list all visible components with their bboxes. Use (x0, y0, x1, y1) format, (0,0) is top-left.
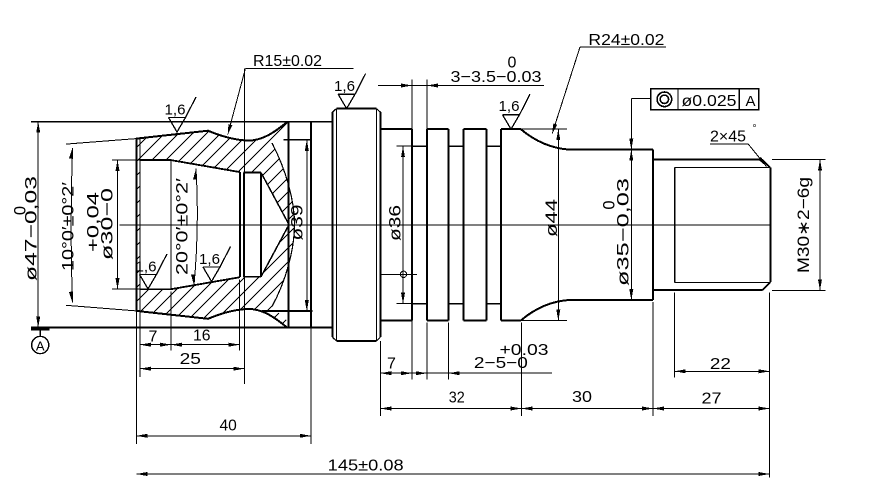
svg-text:145±0.08: 145±0.08 (328, 458, 404, 475)
svg-text:32: 32 (449, 390, 465, 407)
dim 7 mid text (387, 355, 396, 372)
label 2x45 leader (710, 144, 768, 168)
dim phi47 arrows (36, 122, 40, 328)
label R24 underline (580, 46, 666, 48)
dim 16 arrows (171, 343, 240, 347)
dim 7 mid arrows (380, 371, 412, 375)
dim 30 arrows (521, 407, 653, 411)
dim 2-5 deviation text (500, 342, 549, 359)
drill cone upper line (261, 173, 289, 225)
thread right face (769, 168, 771, 283)
bore recess end vertical (260, 173, 262, 277)
dim 145 arrows (136, 472, 769, 476)
svg-text:ø44: ø44 (543, 199, 561, 237)
svg-text:M30∗2−6g: M30∗2−6g (795, 177, 813, 273)
dim phi30 line (117, 160, 119, 289)
dim 20deg arrows (191, 168, 198, 285)
thread major top (653, 159, 762, 161)
bore step vertical 1 (239, 172, 241, 277)
dim phi30 arrows (116, 160, 120, 289)
dim 40 line (136, 435, 310, 437)
dim 3-3.5 text (451, 69, 542, 86)
dim 3-3.5 ext lines (412, 80, 427, 129)
dim phi44 ext bottom (521, 320, 567, 322)
dim phi36 ext top (397, 145, 412, 147)
thread end vertical (674, 167, 676, 282)
finish 1.6 in bore cone (199, 247, 231, 282)
finish 1.6 on phi47 (165, 97, 197, 132)
dim M30 line (819, 160, 821, 291)
dim 30 text (572, 389, 592, 406)
dim 10deg arrows (69, 148, 74, 303)
dim phi44 text (543, 199, 561, 237)
ext flange right down (379, 341, 381, 416)
svg-text:10°0′±0°2′: 10°0′±0°2′ (59, 182, 77, 271)
flange left face (332, 112, 334, 337)
svg-text:1,6: 1,6 (165, 102, 186, 119)
phi47 cylinder bottom / datum extension line (31, 327, 333, 329)
svg-text:ø30−0: ø30−0 (99, 188, 117, 260)
land and rib top edges (381, 128, 521, 130)
flange right chamfer line (376, 109, 378, 341)
ext hump left down (520, 323, 522, 416)
thread minor top line (675, 166, 771, 168)
dim phi30 ext bottom (112, 288, 140, 290)
node marker circle (400, 271, 406, 277)
svg-text:40: 40 (220, 418, 237, 435)
svg-text:ø36: ø36 (387, 205, 405, 241)
hatch section left part (0, 102, 560, 338)
svg-text:R15±0.02: R15±0.02 (253, 53, 322, 70)
dim phi35 upper deviation 0 (601, 200, 619, 209)
dim 16 text (193, 328, 211, 345)
fcf tolerance text (682, 93, 737, 110)
ext right face down (769, 293, 771, 478)
svg-text:0: 0 (508, 55, 517, 72)
svg-text:27: 27 (702, 391, 722, 408)
finish 1.6 on flange (334, 74, 366, 109)
dim 22 line (675, 370, 770, 372)
groove wall verticals (412, 129, 501, 320)
label R15 leader (226, 69, 246, 136)
dim 2-5 arrows (416, 371, 460, 375)
neck bottom edge phi39 (262, 310, 313, 312)
dim phi39 text (289, 205, 307, 241)
dim phi36 ext bottom (397, 303, 412, 305)
ext rib1 left down (426, 323, 428, 380)
flange top edge (336, 108, 376, 110)
left part right face (310, 122, 312, 328)
datum A text (36, 339, 45, 354)
ext left chamfer down (139, 311, 141, 377)
groove bottom top edges (412, 145, 501, 147)
finish 1.6 on phi44 (499, 94, 531, 129)
left face chamfer line (139, 139, 141, 311)
svg-text:ø35−0,03: ø35−0,03 (615, 178, 633, 286)
dim 10deg arc (71, 148, 72, 303)
datum A bar (31, 327, 50, 330)
svg-text:25: 25 (180, 351, 201, 368)
dim phi47 upper deviation 0 (12, 206, 30, 215)
svg-text:16: 16 (193, 328, 211, 345)
land and rib bottom edges (381, 320, 521, 322)
dim 3-3.5 upper deviation 0 (508, 55, 517, 72)
bore cone top edge (171, 160, 240, 172)
svg-text:ø39: ø39 (289, 205, 307, 241)
dim 10deg text (59, 182, 77, 271)
dim 145 line (136, 473, 769, 475)
dim 7 bore text (149, 328, 158, 345)
dim 7 bore line (140, 344, 171, 346)
dim phi39 arrows (305, 140, 309, 311)
dim 32 text (449, 390, 465, 407)
dim 25 text (180, 351, 201, 368)
svg-text:22: 22 (710, 356, 731, 373)
label R24 text (588, 32, 664, 49)
dim phi47 line (37, 122, 39, 328)
flange right face (379, 112, 381, 337)
dim phi44 ext top (521, 128, 567, 130)
flange bottom edge (336, 340, 376, 342)
dim phi36 text (387, 205, 405, 241)
dim 40 arrows (136, 434, 310, 438)
drill cone lower line (261, 225, 289, 277)
bore mouth bottom (140, 288, 171, 290)
R24 fillet top (521, 129, 570, 150)
dim 16 line (171, 344, 240, 346)
neck top edge phi39 (284, 139, 313, 141)
stray node line (381, 273, 417, 275)
dim 3-3.5 line (378, 85, 544, 87)
svg-text:7: 7 (387, 355, 396, 372)
svg-text:30: 30 (572, 389, 592, 406)
bore mouth edge vertical (170, 160, 172, 289)
dim 32 arrows (380, 407, 521, 411)
svg-text:ø0.025: ø0.025 (682, 93, 737, 110)
svg-text:°: ° (753, 124, 757, 135)
dim phi35 text (615, 178, 633, 286)
ext left face down (135, 311, 137, 444)
ext 25 line (244, 69, 246, 384)
dim 27 text (702, 391, 722, 408)
bore recess bottom (244, 276, 262, 278)
flange chamfer corners (333, 109, 381, 341)
bore step vertical 2 (243, 172, 245, 277)
dim 40 text (220, 418, 237, 435)
bore cone bottom edge (171, 277, 240, 289)
dim phi30 ext top (112, 159, 140, 161)
taper ext line bottom (66, 305, 136, 311)
dim 32-30-27 line (380, 408, 769, 410)
left face outer line (135, 139, 137, 311)
svg-text:20°0′±0°2′: 20°0′±0°2′ (174, 178, 192, 275)
dim phi36 arrows (401, 146, 405, 304)
fcf concentricity symbol (657, 92, 672, 107)
outer taper top edge (136, 122, 286, 140)
dim 27 arrows (653, 407, 770, 411)
dim M30 text (795, 177, 813, 273)
dim 3-3.5 arrows (401, 84, 438, 88)
collar edge vertical (288, 122, 290, 328)
dim 20deg text (174, 178, 192, 275)
svg-text:1,6: 1,6 (136, 259, 157, 276)
dim 22 text (710, 356, 731, 373)
datum A stem (39, 330, 41, 336)
svg-text:A: A (36, 339, 45, 354)
bore mouth top (140, 159, 171, 161)
label R24 leader (550, 47, 580, 135)
dim 7 bore arrows (140, 343, 171, 347)
dim phi44 line (557, 129, 559, 320)
fcf leader (631, 98, 650, 100)
dim phi35 arrows (629, 139, 633, 301)
shoulder face (652, 150, 654, 300)
label R15 text (253, 53, 322, 70)
dim 145 text (328, 458, 404, 475)
dim phi30 text (99, 188, 117, 260)
thread major bottom (653, 289, 762, 291)
wire centerline (119, 224, 769, 226)
dim phi47 text (23, 176, 41, 281)
dim phi44 arrows (556, 129, 560, 320)
svg-text:7: 7 (149, 328, 158, 345)
svg-text:1,6: 1,6 (199, 251, 220, 268)
svg-text:A: A (746, 93, 756, 110)
dim M30 arrows (818, 160, 822, 291)
ext rib1 right down (448, 323, 450, 380)
svg-text:+0.03: +0.03 (500, 342, 549, 359)
ext part right face down (310, 328, 312, 444)
outer taper bottom edge (136, 309, 286, 327)
svg-text:2×45: 2×45 (710, 129, 746, 146)
phi35 top edge (570, 149, 653, 151)
dim phi36 line (402, 146, 404, 304)
section boundary arc (272, 143, 295, 307)
thread minor bottom line (675, 281, 771, 283)
svg-text:1,6: 1,6 (334, 78, 355, 95)
groove bottom lower edges (412, 303, 501, 305)
dim 25 line (140, 368, 244, 370)
phi47 cylinder top / extension line (31, 121, 333, 123)
flange left chamfer line (335, 109, 337, 341)
label R15 underline (245, 68, 353, 70)
dim phi30 deviation text (85, 192, 103, 252)
finish 1.6 in bore mouth (136, 254, 168, 289)
fcf box (651, 89, 759, 110)
svg-text:ø47−0,03: ø47−0,03 (23, 176, 41, 281)
dim phi39 line (306, 140, 308, 311)
dim 7 mid line (380, 372, 552, 374)
ext bore step 16 (239, 280, 241, 351)
fcf datum ref text (746, 93, 756, 110)
ext thread start down (674, 293, 676, 378)
thread chamfer top (762, 160, 770, 168)
bore recess top (244, 172, 262, 174)
phi35 bottom edge (570, 299, 653, 301)
ext groove1 left down (411, 306, 413, 380)
datum A circle (32, 336, 49, 353)
dim phi35 line (630, 99, 632, 301)
R24 fillet bottom (521, 300, 570, 321)
ext shoulder down (652, 302, 654, 416)
label 2x45 text (710, 124, 757, 146)
dim M30 ext bottom (772, 289, 826, 291)
svg-text:0: 0 (12, 206, 30, 215)
dim M30 ext top (772, 159, 826, 161)
ext bore step 7 (170, 292, 172, 351)
dim 20deg arc (194, 169, 197, 286)
taper ext line top (66, 139, 136, 145)
svg-text:3−3.5−0.03: 3−3.5−0.03 (451, 69, 542, 86)
thread chamfer bottom (762, 282, 770, 290)
dim 25 arrows (140, 367, 244, 371)
svg-text:R24±0.02: R24±0.02 (588, 32, 664, 49)
dim 2-5 text (474, 355, 528, 372)
dim 22 arrows (675, 369, 770, 373)
svg-text:0: 0 (601, 200, 619, 209)
svg-text:1,6: 1,6 (499, 98, 520, 115)
